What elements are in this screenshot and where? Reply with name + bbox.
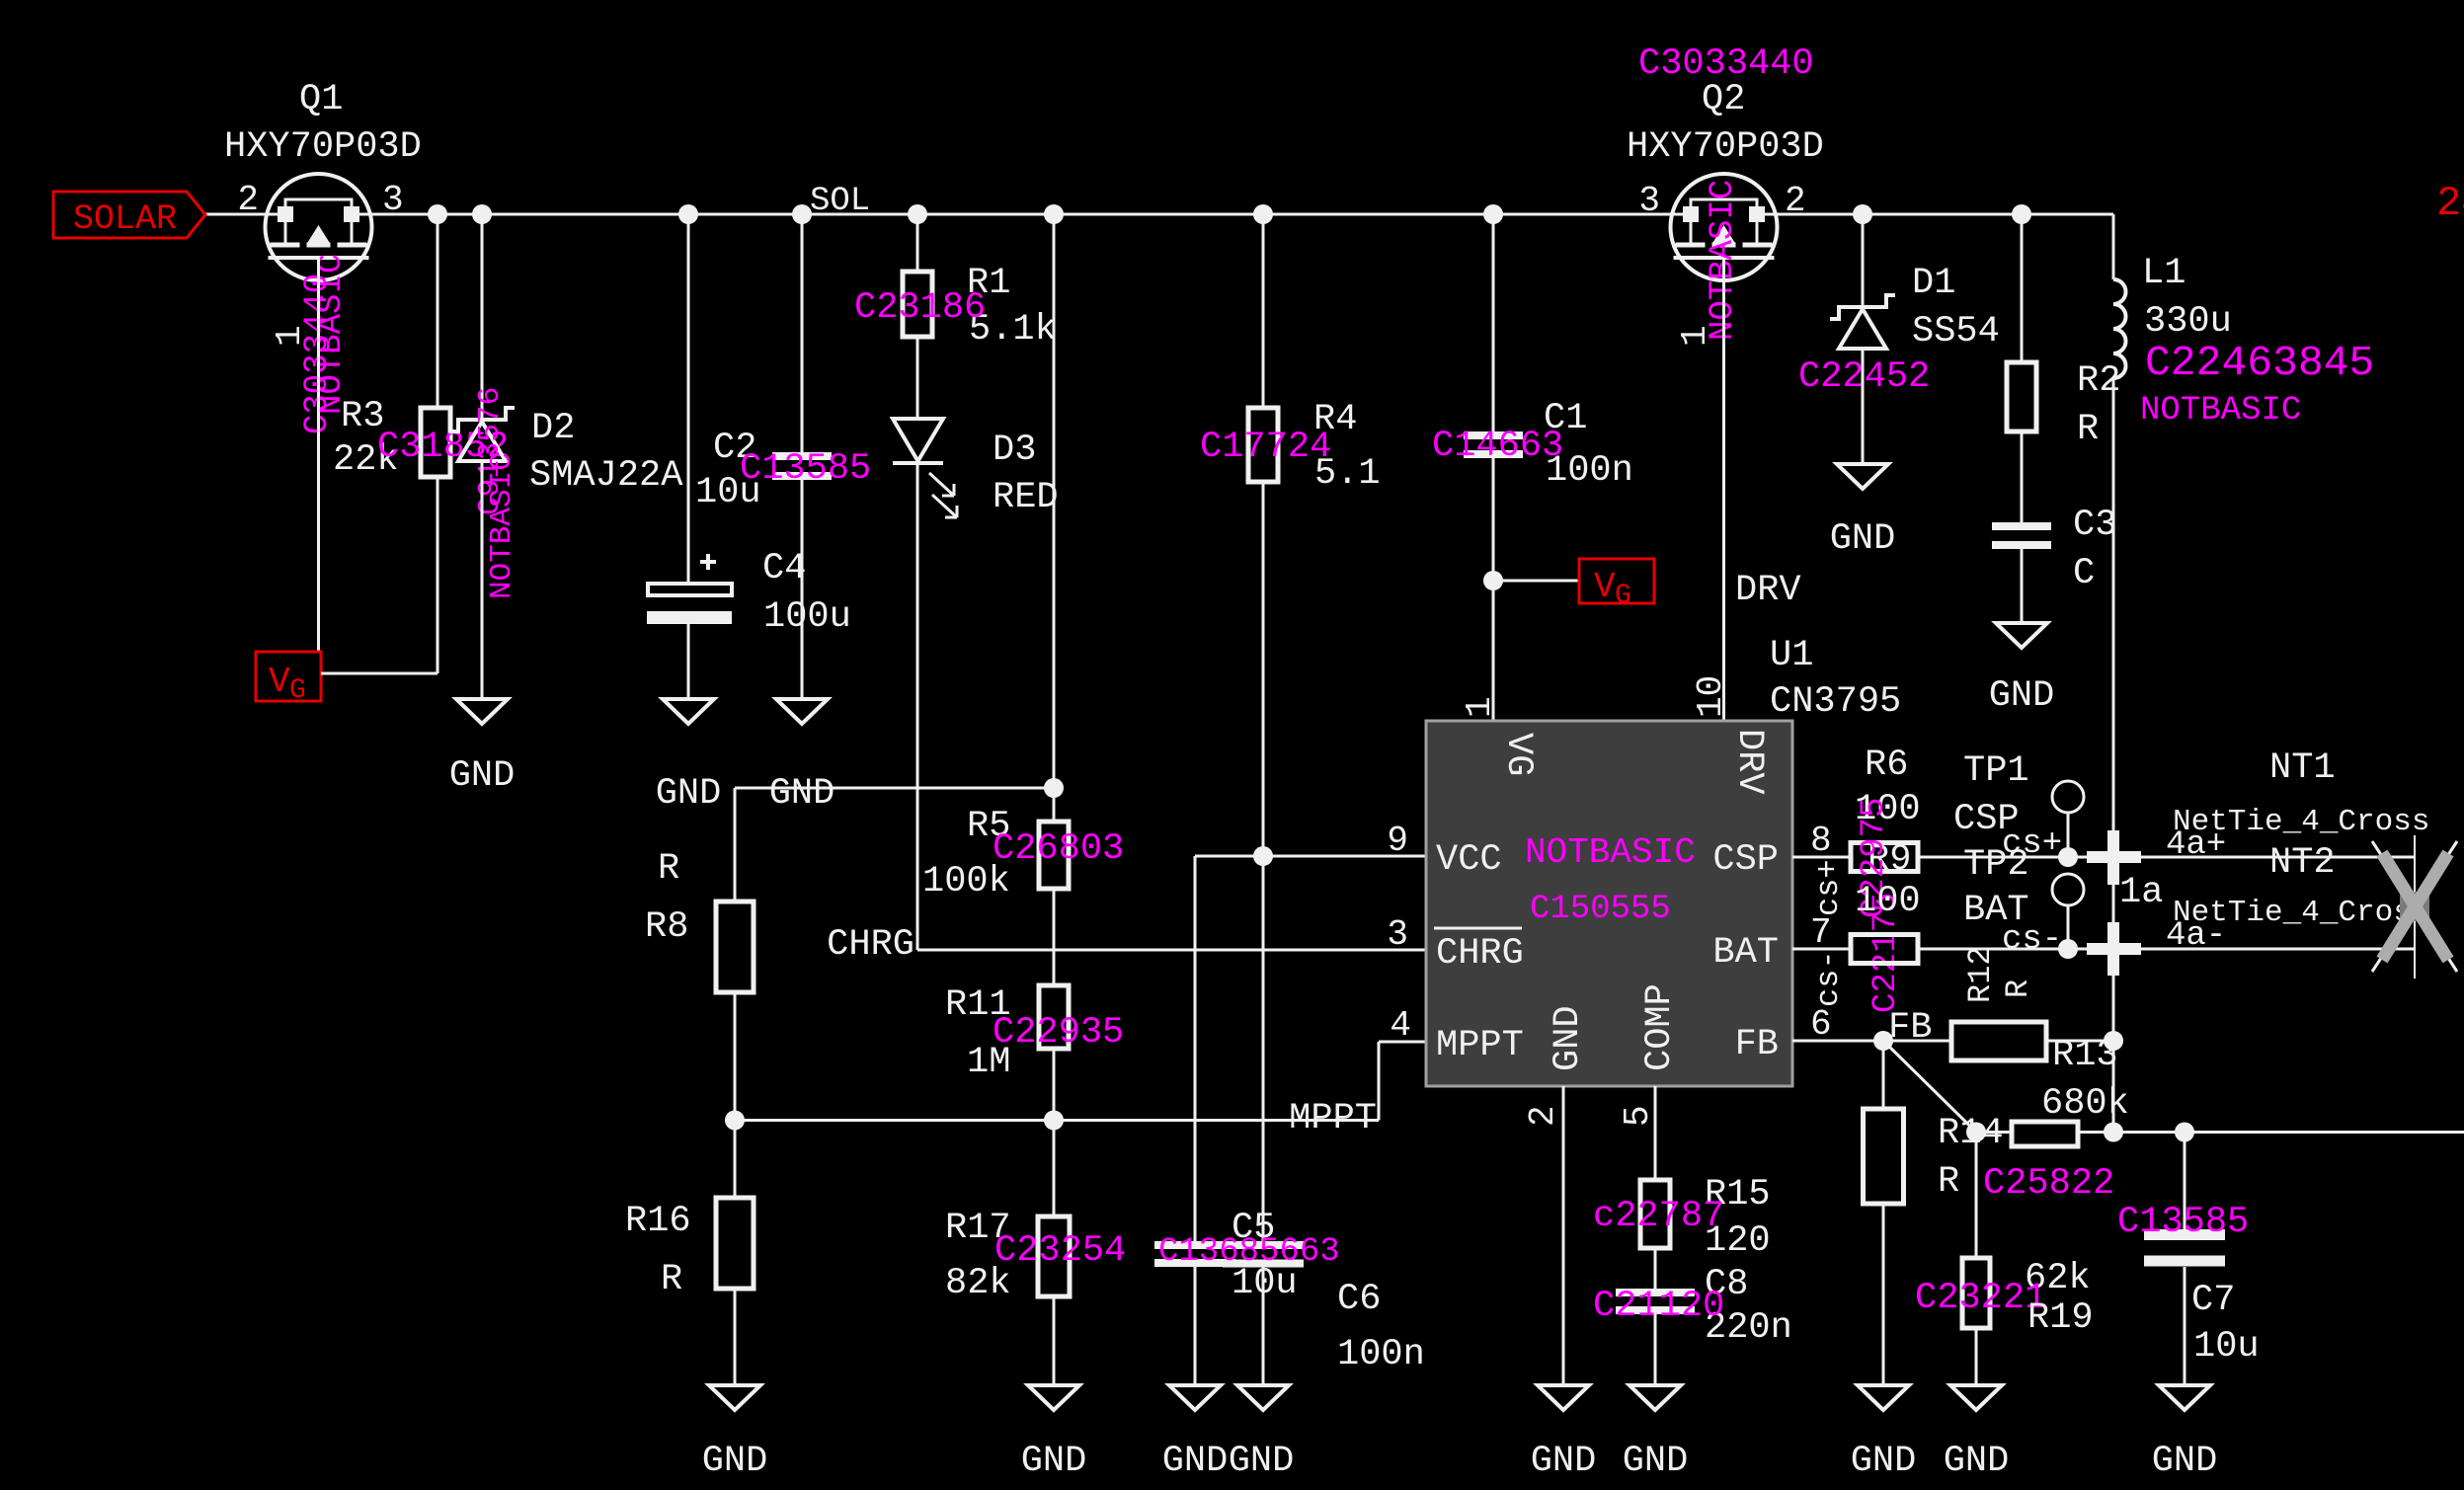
- wire C6 to gnd: [1262, 1263, 1265, 1385]
- wire C2 to gnd: [801, 476, 804, 699]
- svg-text:D3: D3: [993, 430, 1036, 471]
- value 100u C4: [763, 596, 851, 638]
- svg-text:C13585: C13585: [2117, 1202, 2249, 1243]
- pin 3 Q1: [382, 180, 404, 220]
- label R2: [2077, 360, 2120, 402]
- svg-text:R: R: [1938, 1161, 1959, 1203]
- svg-text:C: C: [2073, 553, 2095, 594]
- pin number 2: [1523, 1105, 1563, 1127]
- svg-text:C21120: C21120: [1593, 1286, 1724, 1327]
- pin number 3: [1387, 914, 1408, 955]
- label R3: [341, 396, 384, 437]
- label R8 value R: [658, 848, 679, 890]
- pin number 7: [1810, 912, 1832, 953]
- led D3: [893, 419, 957, 517]
- gnd text R16: [702, 1441, 768, 1482]
- label R19: [2027, 1297, 2094, 1339]
- value C C3: [2073, 553, 2095, 594]
- svg-text:R: R: [661, 1259, 682, 1300]
- pin name FB: [1735, 1024, 1779, 1065]
- label L1: [2142, 253, 2186, 294]
- wire C5 to gnd: [1194, 1263, 1197, 1385]
- power flag VG Q1: [256, 652, 321, 706]
- net cs- text: [2002, 921, 2062, 959]
- value 10u C5: [1232, 1263, 1298, 1304]
- wire R14 right: [2078, 1131, 2113, 1134]
- lcsc C22935 R11: [993, 1012, 1124, 1054]
- wire C8 to gnd: [1654, 1310, 1657, 1385]
- label R11: [945, 984, 1011, 1026]
- svg-text:cs-: cs-: [1810, 950, 1847, 1007]
- svg-text:GND: GND: [1623, 1441, 1689, 1482]
- svg-text:GND: GND: [702, 1441, 768, 1482]
- lcsc C13585 C2: [740, 448, 871, 490]
- svg-text:GND: GND: [1989, 675, 2055, 717]
- pin number 6: [1810, 1004, 1832, 1045]
- wire to right edge: [2185, 1131, 2464, 1134]
- label cs- rotated: [1810, 950, 1847, 1007]
- capacitor C2: [772, 456, 832, 476]
- net cs+ text: [2002, 825, 2062, 863]
- pin 1 Q1: [270, 325, 310, 347]
- svg-text:7: 7: [1810, 912, 1832, 953]
- pin name BAT: [1712, 932, 1779, 974]
- net BAT text: [1963, 890, 2029, 931]
- svg-text:GND: GND: [656, 773, 722, 815]
- gnd text R19: [1944, 1441, 2010, 1482]
- svg-text:CSP: CSP: [1712, 839, 1779, 881]
- wire MPPT: [735, 1042, 1426, 1121]
- svg-text:2: 2: [1785, 181, 1806, 221]
- svg-text:C22935: C22935: [993, 1012, 1124, 1054]
- capacitor C8: [1616, 1293, 1695, 1310]
- svg-text:1a: 1a: [2119, 872, 2163, 913]
- svg-text:DRV: DRV: [1735, 570, 1801, 611]
- svg-text:DRV: DRV: [1728, 729, 1770, 795]
- svg-text:680k: 680k: [2041, 1083, 2129, 1125]
- ground C5: [1169, 1385, 1221, 1410]
- resistor R14: [2012, 1122, 2078, 1146]
- label C2: [713, 428, 756, 469]
- label R5: [967, 806, 1010, 847]
- junction R14 left: [1966, 1123, 1986, 1142]
- diode D1 schottky: [1830, 295, 1895, 349]
- wire FB to R13: [1883, 1040, 1951, 1043]
- dnp cross NT2: [2382, 853, 2448, 960]
- svg-text:D2: D2: [531, 408, 575, 449]
- lcsc C14663 C1: [1432, 426, 1563, 467]
- svg-text:FB: FB: [1888, 1007, 1932, 1049]
- pin number 4: [1390, 1005, 1411, 1046]
- lcsc C31852 R3: [377, 427, 509, 468]
- svg-text:GND: GND: [1851, 1441, 1917, 1482]
- svg-text:3: 3: [382, 180, 404, 220]
- wire R11 to MPPT: [1053, 1049, 1056, 1121]
- pin name COMP: [1639, 983, 1681, 1071]
- label R12 rotated: [1962, 946, 1999, 1003]
- svg-text:NOTBASIC: NOTBASIC: [485, 452, 519, 599]
- label D3: [993, 430, 1036, 471]
- resistor R13: [1951, 1022, 2046, 1060]
- wire R14 to R19: [1975, 1133, 1978, 1259]
- label TP1: [1963, 750, 2029, 792]
- label D2: [531, 408, 575, 449]
- value 62k R19: [2025, 1258, 2091, 1299]
- gnd text C7: [2152, 1441, 2218, 1482]
- lcsc C23221 R19: [1915, 1278, 2046, 1319]
- wire R8 to MPPT: [734, 992, 737, 1121]
- svg-text:GND: GND: [1944, 1441, 2010, 1482]
- label R6: [1865, 745, 1908, 786]
- label C3: [2073, 505, 2116, 546]
- label NT2: [2269, 842, 2336, 884]
- wire CSP to R6: [1792, 856, 1851, 859]
- svg-text:RED: RED: [993, 477, 1059, 518]
- notbasic L1: [2140, 392, 2301, 430]
- pin name CHRG: [1434, 928, 1524, 975]
- svg-text:R6: R6: [1865, 745, 1908, 786]
- wire C4 to gnd: [687, 624, 690, 699]
- wire C7 top: [2184, 1133, 2186, 1230]
- value 82k R17: [945, 1263, 1011, 1304]
- svg-text:CHRG: CHRG: [827, 924, 914, 966]
- resistor R5: [1039, 822, 1069, 889]
- svg-text:C22463845: C22463845: [2145, 339, 2374, 387]
- ground R17: [1028, 1385, 1079, 1410]
- svg-text:BAT: BAT: [1712, 932, 1779, 974]
- junction C2 bus: [792, 204, 812, 224]
- pin 1 Q2: [1675, 325, 1715, 347]
- value 10u C7: [2193, 1326, 2260, 1368]
- resistor R6: [1851, 843, 1918, 872]
- ground R12: [1858, 1385, 1909, 1410]
- junction C1 bus: [1483, 204, 1503, 224]
- value RED D3: [993, 477, 1059, 518]
- wire R13 to rail: [2046, 1040, 2113, 1043]
- wire bus to C2: [801, 214, 804, 456]
- svg-text:C22452: C22452: [1798, 356, 1930, 398]
- wire bus to R4: [1262, 214, 1265, 408]
- wire R15 to C8: [1654, 1248, 1657, 1293]
- value 680k R14: [2041, 1083, 2129, 1125]
- wire bus to R1: [916, 214, 919, 272]
- pin name DRV: [1728, 729, 1770, 795]
- svg-text:R: R: [2077, 409, 2099, 450]
- svg-text:MPPT: MPPT: [1289, 1098, 1377, 1139]
- ground R16: [709, 1385, 760, 1410]
- transistor Q1: [266, 174, 372, 280]
- svg-text:SOLAR: SOLAR: [73, 199, 177, 239]
- wire MPPT to R17: [1053, 1121, 1056, 1217]
- svg-text:GND: GND: [1229, 1441, 1295, 1482]
- resistor R4: [1248, 408, 1278, 482]
- label cs+ rotated: [1810, 859, 1847, 916]
- lcsc C26803 R5: [993, 828, 1124, 870]
- junction TP1: [2058, 847, 2078, 867]
- lcsc D2 vertical: [473, 387, 519, 599]
- resistor R3: [421, 408, 450, 477]
- junction R3 bus: [428, 204, 447, 224]
- svg-text:GND: GND: [1548, 1005, 1589, 1071]
- label C6: [1337, 1279, 1381, 1320]
- svg-text:C13585: C13585: [740, 448, 871, 490]
- wire bus to R5 node: [1053, 214, 1056, 822]
- gnd text C3: [1989, 675, 2055, 717]
- wire L1 down rail: [2112, 378, 2115, 1133]
- svg-text:3: 3: [1638, 181, 1660, 221]
- wire Q1 gate: [317, 258, 320, 652]
- label R9 overlap: [1868, 839, 1911, 881]
- svg-text:100n: 100n: [1337, 1334, 1425, 1375]
- wire bus to D2: [481, 214, 484, 420]
- gnd text C2: [769, 773, 835, 815]
- wire D3 to CHRG: [917, 463, 1426, 950]
- capacitor C5: [1154, 1245, 1235, 1263]
- value 5.1 R4: [1314, 453, 1381, 495]
- pin name CSP: [1712, 839, 1779, 881]
- pin number 5: [1618, 1105, 1658, 1127]
- wire C1 to U1 VG: [1492, 454, 1495, 721]
- junction VCC R4: [1253, 846, 1273, 866]
- capacitor C1: [1464, 435, 1523, 454]
- svg-text:330u: 330u: [2144, 301, 2232, 343]
- ground C6: [1237, 1385, 1289, 1410]
- pin name MPPT: [1436, 1025, 1524, 1066]
- svg-text:R: R: [2000, 980, 2036, 998]
- gnd text D1: [1830, 518, 1896, 560]
- svg-text:SMAJ22A: SMAJ22A: [529, 455, 683, 497]
- value SMAJ22A D2: [529, 455, 683, 497]
- value 100 R6: [1855, 789, 1921, 830]
- lcsc C150555 U1: [1530, 891, 1671, 928]
- svg-text:MPPT: MPPT: [1436, 1025, 1524, 1066]
- wire BAT to R9: [1792, 948, 1851, 951]
- wire R19 to gnd: [1975, 1328, 1978, 1385]
- resistor R1: [903, 272, 932, 337]
- svg-text:G: G: [289, 675, 306, 706]
- lcsc C25822 R14: [1983, 1163, 2114, 1205]
- lcsc C23186 R1: [854, 287, 986, 329]
- wire D2 to gnd: [481, 461, 484, 699]
- junction R5 bus: [1044, 204, 1064, 224]
- junction R11 MPPT: [1044, 1111, 1064, 1131]
- net label FB: [1888, 1007, 1932, 1049]
- resistor R12: [1864, 1109, 1904, 1204]
- lcsc R6 R9 vertical: [1856, 798, 1905, 1013]
- net tie NT2 symbol: [2372, 835, 2457, 979]
- wire MPPT to R16: [734, 1121, 737, 1199]
- svg-text:NT1: NT1: [2269, 747, 2336, 789]
- transistor Q2: [1671, 174, 1778, 280]
- testpoint TP2: [2052, 874, 2084, 949]
- value HXY70P03D Q1: [224, 126, 422, 168]
- svg-text:C13685663: C13685663: [1158, 1233, 1340, 1271]
- gnd text D2: [449, 755, 516, 797]
- svg-text:GND: GND: [2152, 1441, 2218, 1482]
- pin number 10: [1691, 675, 1731, 718]
- junction D2 bus: [472, 204, 492, 224]
- svg-text:CN3795: CN3795: [1770, 681, 1901, 723]
- wire VG flag stub: [1493, 580, 1579, 583]
- hierarchical label 2 right edge: [2436, 180, 2464, 227]
- value CN3795 U1: [1770, 681, 1901, 723]
- svg-text:GND: GND: [1021, 1441, 1087, 1482]
- net label MPPT: [1289, 1098, 1377, 1139]
- pin name GND: [1548, 1005, 1589, 1071]
- svg-text:9: 9: [1387, 821, 1408, 861]
- value 100 R9: [1855, 881, 1921, 922]
- svg-text:VG: VG: [1497, 733, 1539, 776]
- value R R2: [2077, 409, 2099, 450]
- svg-text:V: V: [1594, 567, 1616, 607]
- pin 2 Q1: [237, 180, 259, 220]
- label C8: [1705, 1264, 1748, 1305]
- svg-text:c22787: c22787: [1593, 1196, 1724, 1237]
- svg-text:2: 2: [1523, 1105, 1563, 1127]
- junction VG flag: [1483, 571, 1503, 590]
- lcsc C13585 C7: [2117, 1202, 2249, 1243]
- label R1: [967, 263, 1010, 304]
- gnd text R17: [1021, 1441, 1087, 1482]
- lcsc C17724 R4: [1200, 427, 1331, 468]
- junction R5 top: [1044, 778, 1064, 798]
- value 1M R11: [967, 1042, 1010, 1083]
- svg-text:cs+: cs+: [1810, 859, 1847, 916]
- svg-text:6: 6: [1810, 1004, 1832, 1045]
- wire bus to R3: [437, 214, 439, 408]
- lcsc c22787 R15: [1593, 1196, 1724, 1237]
- label C5: [1232, 1208, 1275, 1249]
- svg-text:R16: R16: [625, 1201, 691, 1242]
- label C4: [762, 548, 806, 589]
- value 22k R3: [333, 439, 399, 481]
- label R14: [1938, 1113, 2004, 1154]
- svg-text:SOL: SOL: [810, 183, 870, 220]
- wire R4 to C6: [1262, 482, 1265, 1245]
- svg-text:C4: C4: [762, 548, 806, 589]
- label R8: [645, 906, 688, 948]
- svg-text:1: 1: [1460, 696, 1500, 718]
- ground U1: [1538, 1385, 1589, 1410]
- gnd text C4: [656, 773, 722, 815]
- wire rail to C7: [2113, 1131, 2185, 1134]
- svg-text:VCC: VCC: [1436, 839, 1502, 881]
- resistor R9: [1851, 935, 1918, 964]
- svg-text:C6: C6: [1337, 1279, 1381, 1320]
- svg-text:HXY70P03D: HXY70P03D: [1627, 126, 1824, 168]
- label 1a: [2119, 872, 2163, 913]
- value NetTie_4_Cross NT2: [2173, 896, 2429, 930]
- wire R5 to R11: [1053, 889, 1056, 985]
- wire VG to R3: [321, 477, 437, 673]
- pin 2 Q2: [1785, 181, 1806, 221]
- lcsc C3033440 Q2: [1638, 43, 1814, 85]
- label Q2: [1702, 79, 1745, 120]
- testpoint TP1: [2052, 781, 2084, 857]
- svg-text:HXY70P03D: HXY70P03D: [224, 126, 422, 168]
- svg-text:Q2: Q2: [1702, 79, 1745, 120]
- wire bus to C4: [687, 214, 690, 584]
- wire U1 gnd pin: [1562, 1086, 1565, 1385]
- junction C7: [2175, 1123, 2194, 1142]
- svg-text:GND: GND: [1531, 1441, 1597, 1482]
- notbasic Q2 vertical: [1705, 180, 1742, 341]
- wire R9 to nt: [1919, 948, 2113, 951]
- svg-text:TP1: TP1: [1963, 750, 2029, 792]
- capacitor C4 polarized: [647, 554, 732, 624]
- value 100n C6: [1337, 1334, 1425, 1375]
- svg-text:NOTBASIC: NOTBASIC: [2140, 392, 2301, 430]
- svg-text:GND: GND: [1162, 1441, 1229, 1482]
- label U1: [1770, 635, 1813, 676]
- pin 4a+ NT1: [2166, 826, 2226, 864]
- svg-text:C7: C7: [2191, 1280, 2235, 1321]
- wire D1 to gnd: [1862, 349, 1865, 464]
- svg-text:D1: D1: [1912, 263, 1955, 304]
- wire C3 to gnd: [2021, 545, 2024, 623]
- lcsc C23254 R17: [994, 1230, 1126, 1272]
- svg-text:2: 2: [2436, 180, 2461, 227]
- junction FB: [1873, 1031, 1893, 1051]
- resistor R17: [1038, 1216, 1070, 1296]
- ground C4: [663, 699, 714, 724]
- value 5.1k R1: [969, 309, 1057, 351]
- ground C8: [1629, 1385, 1681, 1410]
- wire R1 to D3: [916, 337, 919, 419]
- svg-text:C23186: C23186: [854, 287, 986, 329]
- lcsc C22463845 L1: [2145, 339, 2374, 387]
- label R13: [2052, 1035, 2118, 1076]
- junction R2 bus: [2012, 204, 2031, 224]
- svg-text:GND: GND: [769, 773, 835, 815]
- junction R8 MPPT: [725, 1111, 745, 1131]
- capacitor C7: [2144, 1235, 2225, 1262]
- wire R12 to gnd: [1882, 1204, 1885, 1385]
- pin number 9: [1387, 821, 1408, 861]
- net tie NT1 cross b: [2087, 922, 2141, 976]
- label R16: [625, 1201, 691, 1242]
- junction TP2: [2058, 939, 2078, 959]
- wire cs+ to NT2: [2141, 856, 2415, 859]
- svg-text:10u: 10u: [2193, 1326, 2260, 1368]
- net tie NT1 cross a: [2087, 830, 2141, 885]
- gnd text C6: [1229, 1441, 1295, 1482]
- svg-text:R8: R8: [645, 906, 688, 948]
- wire bus to C1: [1492, 214, 1495, 435]
- power flag VG U1: [1579, 559, 1654, 611]
- pin number 8: [1810, 821, 1832, 861]
- junction R14 rail: [2104, 1123, 2123, 1142]
- svg-text:C23254: C23254: [994, 1230, 1126, 1272]
- svg-text:R19: R19: [2027, 1297, 2094, 1339]
- value R R14: [1938, 1161, 1959, 1203]
- svg-text:GND: GND: [449, 755, 516, 797]
- wire FB pin: [1792, 1040, 1883, 1043]
- capacitor C6: [1223, 1245, 1304, 1264]
- wire R6 to nt: [1918, 856, 2113, 859]
- pin 3 Q2: [1638, 181, 1660, 221]
- notbasic U1: [1525, 832, 1696, 873]
- svg-text:2: 2: [237, 180, 259, 220]
- value 120 R15: [1705, 1220, 1771, 1262]
- value NetTie_4_Cross NT1: [2173, 805, 2429, 839]
- svg-text:C14663: C14663: [1432, 426, 1563, 467]
- svg-text:FB: FB: [1735, 1024, 1779, 1065]
- wire SOL bus: [205, 213, 2113, 216]
- svg-text:C25822: C25822: [1983, 1163, 2114, 1205]
- svg-text:V: V: [269, 662, 290, 702]
- svg-text:U1: U1: [1770, 635, 1813, 676]
